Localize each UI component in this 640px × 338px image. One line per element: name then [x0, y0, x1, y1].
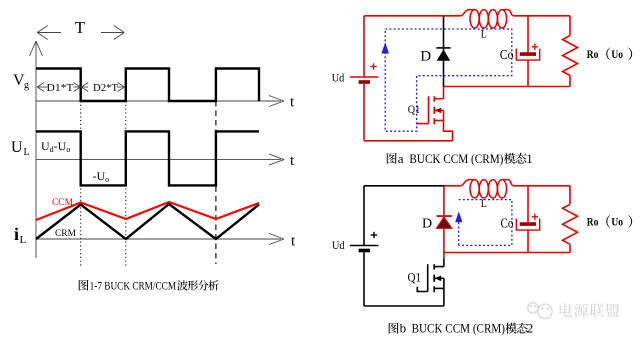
- svg-text:Q1: Q1: [408, 271, 422, 285]
- svg-text:D1*T: D1*T: [47, 83, 74, 94]
- svg-text:CCM: CCM: [52, 198, 74, 208]
- svg-text:CRM: CRM: [55, 229, 77, 239]
- svg-text:g: g: [24, 80, 29, 91]
- svg-text:Co: Co: [501, 217, 514, 232]
- svg-text:BUCK CCM (CRM): BUCK CCM (CRM): [412, 321, 505, 336]
- svg-text:Ud-Uo: Ud-Uo: [41, 139, 70, 154]
- svg-text:Uo: Uo: [611, 49, 623, 61]
- svg-text:D2*T: D2*T: [93, 83, 118, 94]
- svg-text:Ud: Ud: [332, 72, 345, 84]
- svg-text:Q1: Q1: [408, 102, 421, 116]
- svg-text:Ro: Ro: [587, 49, 599, 61]
- svg-text:L: L: [20, 234, 27, 246]
- svg-text:D: D: [422, 217, 432, 232]
- svg-text:L: L: [481, 29, 487, 41]
- svg-text:L: L: [24, 147, 30, 158]
- svg-text:Uo: Uo: [611, 217, 623, 229]
- svg-text:Co: Co: [500, 48, 514, 63]
- svg-text:Ud: Ud: [332, 240, 345, 252]
- svg-text:U: U: [11, 139, 23, 156]
- svg-text:2: 2: [527, 321, 534, 336]
- svg-text:a: a: [398, 151, 404, 166]
- svg-text:D: D: [420, 49, 431, 65]
- svg-text:L: L: [481, 198, 487, 210]
- svg-text:BUCK CCM (CRM): BUCK CCM (CRM): [409, 151, 503, 166]
- svg-text:1-7 BUCK CRM/CCM: 1-7 BUCK CRM/CCM: [90, 279, 177, 293]
- svg-text:T: T: [75, 18, 86, 37]
- svg-text:i: i: [14, 224, 19, 244]
- svg-text:Ro: Ro: [587, 217, 599, 229]
- svg-text:1: 1: [526, 151, 533, 166]
- svg-text:b: b: [400, 321, 407, 336]
